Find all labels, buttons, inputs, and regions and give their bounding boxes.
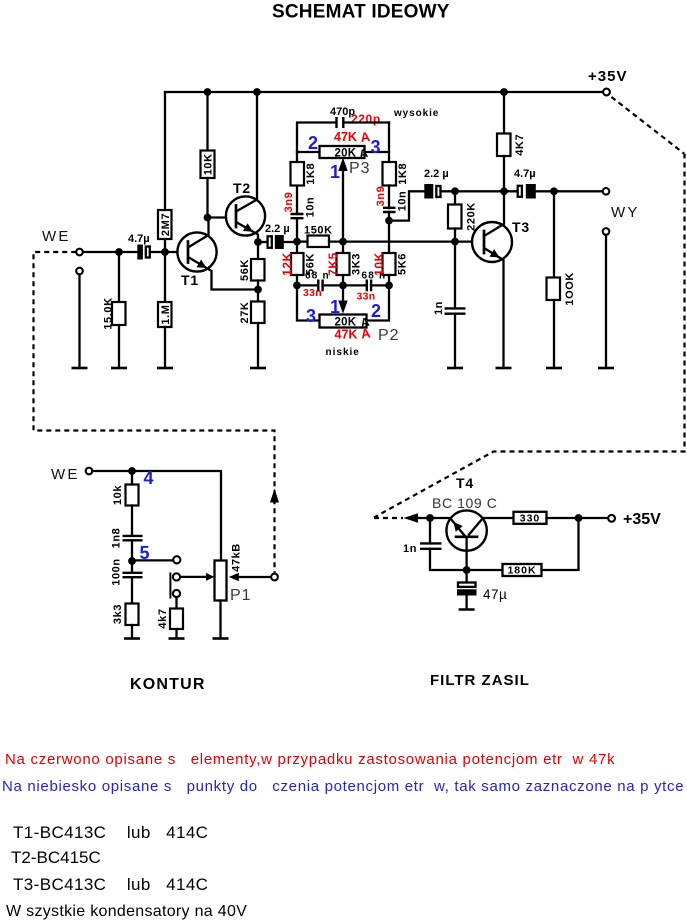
- svg-text:WE: WE: [51, 466, 80, 483]
- node T2 base: [204, 214, 212, 222]
- ground WE: [72, 367, 88, 370]
- svg-text:1: 1: [330, 162, 340, 182]
- arrow into T4 node: [404, 513, 419, 522]
- svg-text:T1: T1: [181, 272, 199, 288]
- node 220K top: [451, 187, 459, 195]
- capacitor 100n: [131, 561, 133, 573]
- resistor 5K6/10K tone: [388, 221, 390, 253]
- svg-text:2: 2: [308, 133, 318, 153]
- wire left treble branch: [296, 218, 298, 241]
- svg-text:KONTUR: KONTUR: [130, 676, 206, 693]
- svg-text:1.M: 1.M: [160, 304, 172, 324]
- transistor T1: [177, 232, 216, 271]
- ground 150K: [111, 367, 127, 370]
- svg-text:T2-BC415C: T2-BC415C: [11, 848, 101, 867]
- ground 3k3: [124, 637, 140, 640]
- ground WY: [598, 367, 614, 370]
- node 1OOK top: [550, 187, 558, 195]
- terminal WE upper: [76, 249, 83, 256]
- svg-text:1K8: 1K8: [305, 163, 317, 185]
- svg-text:3k3: 3k3: [112, 604, 124, 624]
- svg-text:niskie: niskie: [326, 347, 360, 358]
- node T4 base: [426, 514, 434, 522]
- resistor 150K feedback: [297, 240, 308, 242]
- node 47u top: [463, 566, 471, 574]
- ground T3 emitter: [496, 367, 512, 370]
- wire 2M7 to input node: [164, 239, 166, 302]
- node T1 base bias: [161, 248, 169, 256]
- ground 1OOK: [546, 367, 562, 370]
- wire node5 to jack: [132, 559, 173, 561]
- resistor 1K8 right: [383, 162, 397, 186]
- svg-text:BC 109 C: BC 109 C: [432, 495, 498, 511]
- resistor 4K7: [503, 92, 505, 134]
- resistor 1K8 left: [291, 162, 305, 186]
- arrow up on dashed: [270, 489, 279, 503]
- svg-text:T4: T4: [456, 475, 474, 491]
- svg-text:1n: 1n: [403, 543, 417, 555]
- potentiometer P2: [297, 285, 320, 320]
- resistor 27K: [251, 302, 265, 324]
- svg-text:3: 3: [306, 306, 316, 326]
- node 150K top: [115, 248, 123, 256]
- capacitor 1n: [454, 242, 456, 309]
- svg-text:2.2 µ: 2.2 µ: [265, 223, 290, 235]
- svg-text:180K: 180K: [507, 565, 536, 577]
- node 4: [128, 467, 136, 475]
- svg-text:P1: P1: [230, 587, 252, 604]
- terminal +35V filter: [608, 515, 615, 522]
- svg-text:100n: 100n: [111, 558, 123, 585]
- svg-text:2.2 µ: 2.2 µ: [424, 168, 449, 180]
- svg-text:P2: P2: [378, 327, 400, 344]
- node T3 collector out: [500, 187, 508, 195]
- ground 4k7: [169, 637, 185, 640]
- wire WE to P1: [92, 471, 221, 561]
- resistor 56K (T2 emitter): [257, 242, 259, 259]
- resistor 1OOK: [553, 191, 555, 277]
- svg-text:47µ: 47µ: [483, 587, 507, 602]
- node rail-4K7: [500, 88, 508, 96]
- node tone left: [293, 238, 301, 246]
- wire emitter to cap: [258, 241, 268, 243]
- resistor 4k7: [175, 597, 177, 608]
- resistor 220K: [454, 191, 456, 204]
- capacitor 68n left: [297, 284, 318, 286]
- wire 1M bottom: [164, 327, 166, 368]
- svg-text:12K: 12K: [280, 252, 294, 276]
- wire T2 base: [208, 216, 237, 218]
- resistor 15.0K: [118, 252, 120, 302]
- transistor T2: [226, 196, 265, 235]
- svg-text:3n9: 3n9: [375, 186, 387, 207]
- svg-text:3: 3: [371, 137, 381, 157]
- capacitor 10n left: [291, 214, 304, 218]
- svg-text:68 n: 68 n: [305, 271, 330, 282]
- switch lever: [169, 574, 171, 598]
- svg-text:150K: 150K: [304, 225, 333, 237]
- svg-text:33n: 33n: [303, 287, 322, 299]
- wire jack B to P1 wiper: [180, 576, 206, 578]
- svg-text:1K8: 1K8: [397, 163, 409, 185]
- node tone mid: [339, 238, 347, 246]
- svg-text:4k7: 4k7: [157, 608, 169, 628]
- svg-text:wysokie: wysokie: [393, 108, 439, 119]
- resistor 10K: [206, 92, 208, 151]
- svg-text:10K: 10K: [203, 153, 215, 175]
- capacitor 1n8: [123, 536, 143, 540]
- resistor 56K/12K tone: [296, 242, 298, 253]
- wire cap to tone node: [284, 241, 297, 243]
- wire treble out to 2.2u: [389, 191, 425, 220]
- terminal +35V: [603, 89, 610, 96]
- svg-text:1OOK: 1OOK: [564, 272, 576, 306]
- terminal WE kontur: [86, 468, 93, 475]
- svg-text:WY: WY: [611, 204, 640, 221]
- wiper P3: [342, 168, 344, 242]
- svg-text:Na niebiesko opisane s punkt: Na niebiesko opisane s punkty do czenia …: [2, 778, 684, 795]
- svg-text:W szystkie kondensatory na 40V: W szystkie kondensatory na 40V: [6, 903, 247, 920]
- terminal kontur return: [271, 574, 278, 581]
- transistor T3: [472, 222, 512, 262]
- potentiometer P3: [297, 151, 320, 153]
- svg-text:1n8: 1n8: [111, 528, 123, 549]
- dashed link +35V to filter: [612, 97, 685, 154]
- node T3 base: [451, 238, 459, 246]
- wiper arrow P1: [206, 573, 214, 581]
- svg-text:+35V: +35V: [588, 68, 627, 85]
- transistor T4: [446, 510, 486, 550]
- svg-text:1: 1: [330, 297, 340, 317]
- wire output row: [441, 190, 518, 192]
- svg-text:A: A: [360, 325, 372, 341]
- jack contact B: [173, 573, 180, 580]
- svg-text:T3: T3: [512, 219, 530, 235]
- svg-text:4.7µ: 4.7µ: [514, 168, 536, 180]
- wire +35V top supply rail: [165, 91, 603, 93]
- svg-text:P3: P3: [349, 160, 371, 177]
- wire WE to C input: [83, 251, 138, 253]
- svg-text:47kB: 47kB: [231, 543, 243, 572]
- wiper P2: [342, 285, 344, 302]
- node 5: [128, 557, 136, 565]
- svg-text:+35V: +35V: [623, 511, 661, 528]
- resistor 2M7: [158, 210, 172, 239]
- dashed link WE to kontur: [34, 252, 275, 573]
- svg-text:2M7: 2M7: [160, 213, 172, 236]
- resistor 3K3/7K5 tone: [342, 242, 344, 253]
- capacitor 47u: [465, 570, 467, 583]
- svg-text:4: 4: [144, 468, 154, 488]
- terminal WY lower: [603, 228, 610, 235]
- svg-text:47K: 47K: [334, 130, 357, 144]
- jack contact C: [173, 590, 180, 597]
- capacitor 4.7u input: [137, 245, 143, 260]
- svg-text:FILTR ZASIL: FILTR ZASIL: [430, 672, 530, 689]
- capacitor 4.7u output: [518, 186, 522, 197]
- svg-text:2: 2: [371, 301, 381, 321]
- svg-text:4.7µ: 4.7µ: [128, 233, 150, 245]
- svg-text:56K: 56K: [239, 259, 251, 281]
- wire 2M7 column top: [164, 92, 166, 210]
- svg-text:T3-BC413C lub 414C: T3-BC413C lub 414C: [13, 875, 208, 894]
- resistor 3k3: [126, 604, 139, 626]
- svg-text:47K: 47K: [335, 328, 358, 342]
- svg-text:WE: WE: [42, 228, 71, 245]
- svg-text:T1-BC413C lub 414C: T1-BC413C lub 414C: [13, 823, 208, 842]
- svg-text:68 n: 68 n: [362, 271, 387, 282]
- capacitor 1n filter: [429, 518, 431, 543]
- svg-text:27K: 27K: [239, 302, 251, 324]
- svg-text:330: 330: [520, 513, 541, 525]
- node bass left: [293, 282, 301, 290]
- svg-text:5K6: 5K6: [397, 253, 409, 275]
- node 56K-27K: [254, 286, 262, 294]
- svg-text:3n9: 3n9: [283, 192, 295, 213]
- node bass mid: [339, 282, 347, 290]
- wire WE lower to ground: [78, 275, 80, 369]
- capacitor 2.2u right: [424, 184, 433, 199]
- terminal WY upper: [603, 188, 610, 195]
- node T2 emitter: [254, 238, 262, 246]
- svg-text:T2: T2: [233, 180, 251, 196]
- capacitor 68n right: [343, 284, 367, 286]
- svg-text:220K: 220K: [466, 202, 478, 231]
- resistor 1M: [158, 302, 172, 327]
- node rail-10K: [204, 88, 212, 96]
- svg-text:10n: 10n: [397, 191, 409, 212]
- potentiometer P1: [215, 561, 227, 601]
- resistor 330: [483, 517, 514, 519]
- svg-text:10k: 10k: [112, 485, 124, 505]
- node 180K right: [575, 514, 583, 522]
- ground 1M: [157, 367, 173, 370]
- node treble out: [385, 217, 393, 225]
- svg-text:4K7: 4K7: [514, 134, 526, 156]
- capacitor 470p: [337, 117, 344, 128]
- svg-text:1n: 1n: [433, 301, 445, 315]
- node rail-T2collector: [253, 88, 261, 96]
- ground 27K: [250, 367, 266, 370]
- resistor 10k: [131, 471, 133, 485]
- ground 47u: [459, 608, 475, 611]
- arrow P1 right: [229, 573, 239, 581]
- node bass right: [385, 282, 393, 290]
- svg-text:15.0K: 15.0K: [103, 297, 115, 329]
- capacitor 2.2u left: [268, 236, 272, 248]
- ground 1n: [447, 367, 463, 370]
- capacitor 10n right: [383, 208, 396, 212]
- svg-text:10n: 10n: [305, 197, 317, 218]
- jack contact A: [173, 556, 180, 563]
- svg-text:Na czerwono opisane s elemen: Na czerwono opisane s elementy,w przypad…: [5, 751, 615, 768]
- wire mid row to T3 base: [343, 240, 484, 242]
- svg-text:SCHEMAT IDEOWY: SCHEMAT IDEOWY: [272, 2, 450, 23]
- svg-text:20K: 20K: [335, 148, 357, 160]
- wire right treble branch: [388, 123, 390, 163]
- svg-text:220p: 220p: [351, 112, 381, 126]
- terminal WE lower: [76, 268, 83, 275]
- svg-text:A: A: [359, 129, 371, 145]
- ground P1: [213, 637, 229, 640]
- wire cap to T1 base: [150, 251, 188, 253]
- resistor 180K: [503, 564, 542, 576]
